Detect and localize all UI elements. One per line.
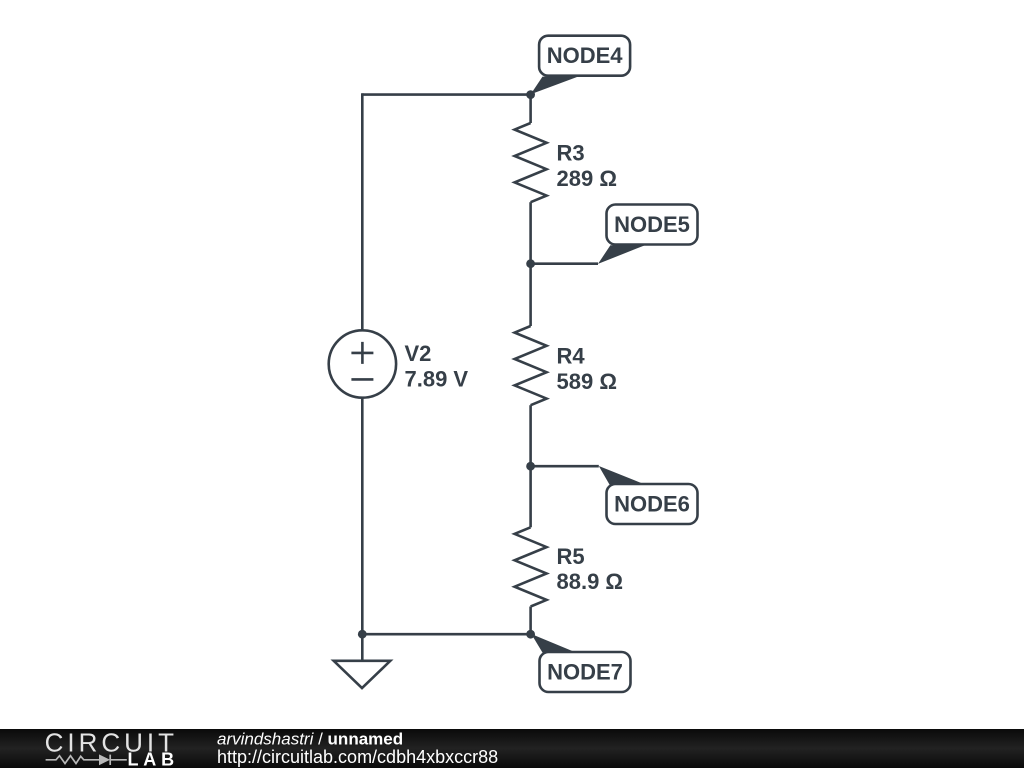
label V2 7.89 V — [405, 341, 469, 391]
svg-text:R4: R4 — [557, 344, 586, 369]
label R4 589 Ω — [557, 344, 617, 394]
wire top horizontal — [362, 93, 530, 96]
label R5 88.9 Ω — [557, 544, 624, 594]
svg-text:NODE6: NODE6 — [614, 492, 690, 517]
svg-text:R3: R3 — [557, 141, 585, 166]
svg-text:LAB: LAB — [128, 750, 179, 768]
logo resistor-diode symbol — [46, 755, 127, 765]
wire NODE5 junction to R4 — [529, 264, 532, 326]
wire NODE6 stub horizontal — [531, 465, 599, 468]
svg-text:7.89 V: 7.89 V — [405, 367, 469, 392]
junction dot node NODE6 — [526, 462, 535, 471]
ground — [334, 634, 391, 688]
resistor R5 — [515, 527, 547, 606]
wire left vertical upper (to V2 + terminal) — [361, 93, 364, 330]
junction dot node NODE4 — [526, 90, 535, 99]
wire right top lead (node4 to R3) — [529, 95, 532, 123]
junction dot node NODE7 — [526, 630, 535, 639]
wire R4 to NODE6 junction — [529, 405, 532, 466]
svg-text:R5: R5 — [557, 544, 585, 569]
resistor R4 — [515, 326, 547, 405]
footer bar — [0, 729, 1024, 768]
svg-text:88.9 Ω: 88.9 Ω — [557, 569, 624, 594]
wire left vertical lower (V2 - terminal to bottom) — [361, 398, 364, 635]
svg-text:NODE7: NODE7 — [547, 660, 623, 685]
junction dot node NODE5 — [526, 259, 535, 268]
svg-text:289 Ω: 289 Ω — [557, 166, 617, 191]
node flag NODE4 — [531, 36, 630, 95]
voltage source V2 — [329, 330, 396, 397]
wire NODE5 stub horizontal — [531, 262, 598, 265]
wire R5 to bottom node — [529, 607, 532, 635]
resistor R3 — [515, 123, 547, 202]
wire R3 to NODE5 junction — [529, 202, 532, 264]
wire bottom horizontal — [362, 633, 530, 636]
svg-text:http://circuitlab.com/cdbh4xbx: http://circuitlab.com/cdbh4xbxccr88 — [217, 747, 498, 767]
svg-text:589 Ω: 589 Ω — [557, 369, 617, 394]
svg-text:NODE4: NODE4 — [547, 43, 624, 68]
node flag NODE7 — [531, 634, 630, 692]
junction dot ground node — [358, 630, 367, 639]
svg-text:arvindshastri / unnamed: arvindshastri / unnamed — [217, 729, 403, 748]
label R3 289 Ω — [557, 141, 617, 191]
wire NODE6 junction to R5 — [529, 466, 532, 527]
svg-text:NODE5: NODE5 — [614, 212, 690, 237]
svg-text:V2: V2 — [405, 341, 432, 366]
node flag NODE6 — [599, 466, 698, 524]
node flag NODE5 — [598, 205, 698, 264]
